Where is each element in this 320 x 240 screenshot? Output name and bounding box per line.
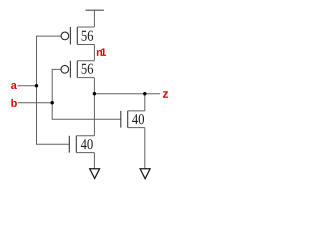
wire net a (gate of M1 and M3) xyxy=(37,36,70,144)
junction dot net b xyxy=(51,101,54,104)
value label 40 of M3 xyxy=(81,139,93,149)
input label b xyxy=(11,99,17,107)
wire node n1 (between M1 and M2) xyxy=(93,45,95,61)
nmos transistor M4 (gate b, w=40) xyxy=(121,111,145,128)
junction dot z at M4 drain xyxy=(143,92,146,95)
vdd stem wire xyxy=(93,10,95,27)
wire M2 drain down to z xyxy=(93,78,95,94)
input label a xyxy=(11,83,17,89)
junction dot z at M3 drain xyxy=(93,92,96,95)
value label 56 of M2 xyxy=(82,64,93,74)
pmos transistor M1 (gate a, w=56) xyxy=(61,27,94,45)
ground symbol below M3 xyxy=(90,169,100,179)
wire M3 drain up to z xyxy=(93,94,95,136)
pmos transistor M2 (gate b, w=56) xyxy=(61,61,94,78)
wire M3 source to ground xyxy=(93,153,95,169)
wire input b stub xyxy=(18,102,53,104)
wire net b (gate of M2 and M4) xyxy=(52,69,121,119)
value label 40 of M4 xyxy=(132,114,144,124)
junction dot net a xyxy=(35,84,38,87)
output label z xyxy=(163,91,168,98)
wire output rail z xyxy=(94,93,160,95)
wire M4 drain up to z xyxy=(144,94,146,111)
wire M4 source to ground xyxy=(144,128,146,169)
ground symbol below M4 xyxy=(140,169,150,179)
wire input a stub xyxy=(18,85,37,87)
node label n1 xyxy=(97,48,106,56)
value label 56 of M1 xyxy=(82,31,93,41)
nmos transistor M3 (gate a, w=40) xyxy=(69,136,94,153)
vdd supply rail xyxy=(86,9,104,11)
